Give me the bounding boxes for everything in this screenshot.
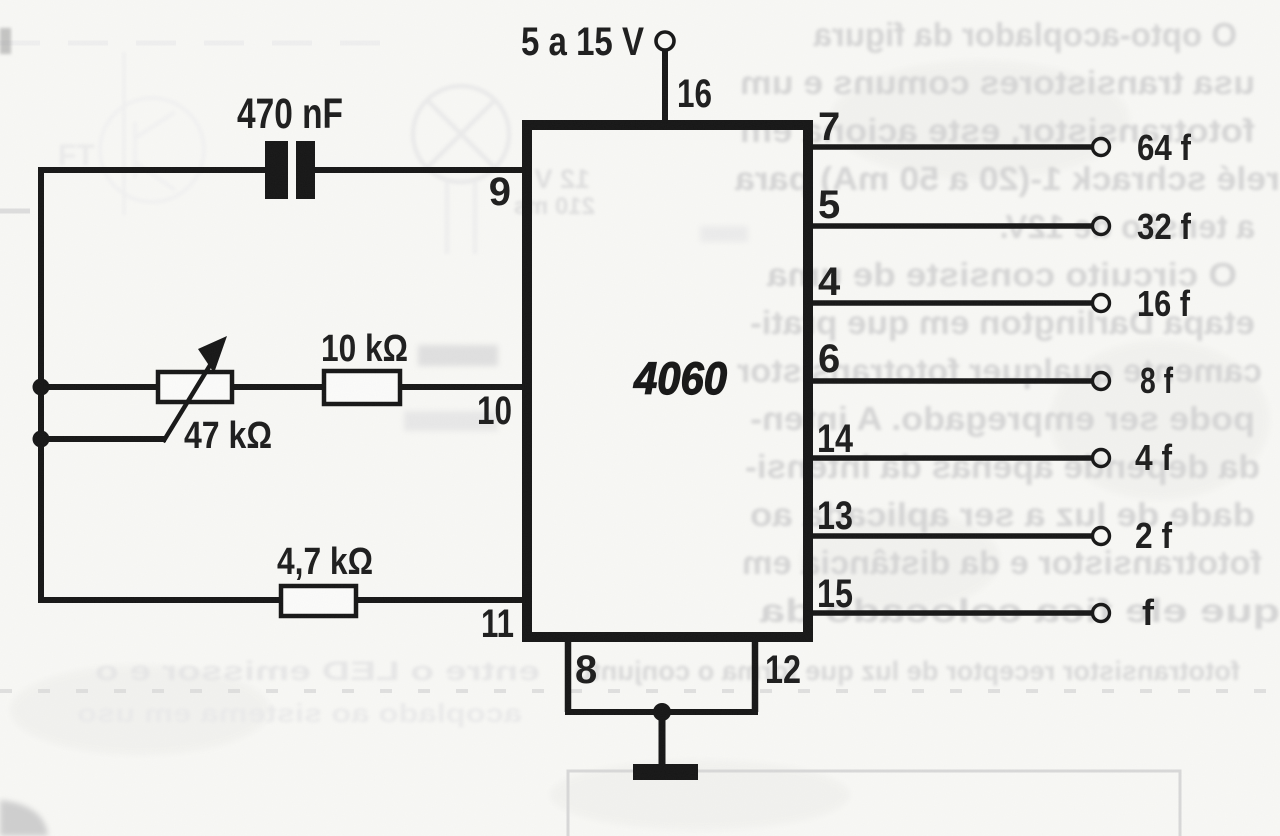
- ground symbol: [633, 764, 698, 780]
- ghost 12V / 210ms inside IC: [514, 164, 595, 220]
- wire pin 12 down: [752, 641, 759, 712]
- wire potentiometer to R1: [232, 384, 323, 390]
- resistor R1 10 kOhm: [324, 371, 400, 404]
- output pin 13 wire: [810, 533, 1093, 539]
- ghost dashed row: [0, 689, 1280, 693]
- resistor R2 4,7 kOhm: [281, 586, 356, 616]
- wire junction to ground: [659, 712, 666, 766]
- terminal 64f: [1093, 139, 1110, 156]
- terminal 2f: [1093, 528, 1110, 545]
- potentiometer P1 body 47 kOhm: [158, 372, 232, 402]
- junction node dot: [653, 703, 671, 721]
- paper texture noise: [0, 0, 1, 1]
- ghost top dashed stripe: [0, 41, 400, 46]
- wire supply to pin 16: [662, 50, 668, 120]
- wire node to potentiometer: [38, 384, 158, 390]
- wire pin 8 down: [565, 641, 572, 712]
- ghost figure frame (bottom): [568, 771, 1180, 836]
- output pin 4 wire: [810, 300, 1093, 306]
- ghost bottom caption rows (mirrored): [95, 656, 1240, 686]
- page edge artifacts: [0, 28, 11, 54]
- ghost transistor symbol (bleed-through, top-left): [100, 52, 204, 215]
- potentiometer wiper arrow: [163, 336, 227, 442]
- capacitor C1 470 nF: [265, 141, 315, 199]
- wire R2 to pin 11: [356, 597, 524, 603]
- ghost smudges: [418, 345, 498, 366]
- wire R1 to pin 10: [400, 384, 524, 390]
- output pin 15 wire: [810, 610, 1093, 616]
- output pin 6 wire: [810, 378, 1093, 384]
- output pin 14 wire: [810, 455, 1093, 461]
- terminal 8f: [1093, 373, 1110, 390]
- wire joining pins 8 and 12: [565, 709, 758, 715]
- IC U1 4060 body: [527, 125, 808, 637]
- output pin 7 wire: [810, 144, 1093, 150]
- terminal 32f: [1093, 218, 1110, 235]
- left vertical rail wire: [38, 167, 44, 603]
- supply terminal: [656, 32, 674, 50]
- terminal f: [1093, 605, 1110, 622]
- output pin 5 wire: [810, 223, 1093, 229]
- node junction dot lower: [33, 431, 50, 448]
- wire lower node to wiper: [38, 436, 166, 442]
- node junction dot upper: [33, 379, 50, 396]
- wire pin 9 right segment: [314, 167, 524, 173]
- wire pin 9 left segment: [38, 167, 266, 173]
- terminal 4f: [1093, 450, 1110, 467]
- ghost bleed-through text column (mirrored): [734, 16, 1280, 629]
- ghost lamp symbol (bleed-through): [413, 86, 509, 254]
- wire pin 11 left segment: [38, 597, 281, 603]
- terminal 16f: [1093, 295, 1110, 312]
